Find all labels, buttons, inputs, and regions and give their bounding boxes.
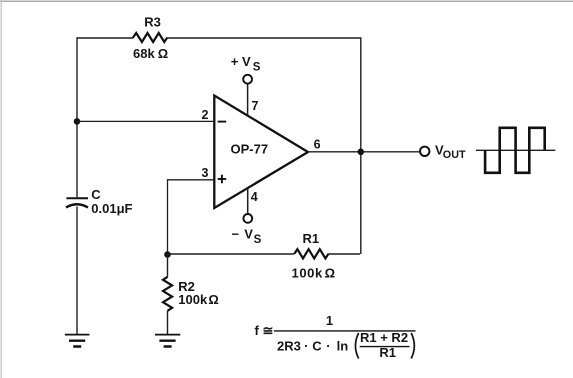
formula: big right paren [411, 333, 414, 359]
svg-text:− VS: − VS [232, 226, 262, 246]
output square wave [485, 128, 545, 173]
wire: R2 to ground [167, 311, 169, 334]
scan border top [0, 0, 573, 2]
svg-text:R1 + R2: R1 + R2 [360, 330, 408, 345]
svg-text:68kΩ: 68kΩ [133, 46, 168, 61]
output waveform zero line [476, 149, 555, 151]
svg-text:2R3·C·ln: 2R3·C·ln [277, 338, 348, 353]
svg-text:VOUT: VOUT [435, 143, 466, 161]
svg-text:R1: R1 [303, 231, 320, 246]
svg-text:100kΩ: 100kΩ [178, 292, 219, 307]
node: inverting input junction [74, 118, 81, 125]
op-amp U1 OP-77 triangle [214, 96, 308, 209]
scan border left [0, 0, 2, 378]
svg-text:3: 3 [202, 166, 209, 180]
formula f ≅ 1 / (2R3·C·ln((R1+R2)/R1)) [255, 313, 416, 360]
svg-text:6: 6 [314, 137, 321, 151]
svg-text:+ VS: + VS [231, 54, 261, 73]
wire: left vertical + top feedback left lead to R3 [77, 38, 134, 197]
svg-text:2: 2 [202, 108, 209, 122]
wire: junction down to R2 [167, 255, 169, 277]
terminal -Vs [243, 214, 252, 223]
wire: pin 7 to +Vs terminal [247, 84, 249, 116]
formula: big left paren [355, 333, 358, 359]
wire: junction to R1 [168, 253, 295, 255]
resistor R1 [294, 249, 328, 258]
svg-text:1: 1 [326, 313, 333, 328]
svg-text:4: 4 [251, 190, 258, 204]
terminal Vout [420, 147, 429, 156]
wire: output node to Vout terminal [361, 151, 420, 153]
wire: pin 6 output lead [308, 151, 361, 153]
wire: pin 4 to -Vs terminal [247, 188, 249, 213]
svg-text:OP-77: OP-77 [231, 141, 269, 156]
terminal +Vs [243, 75, 252, 84]
formula: inner fraction bar [360, 346, 410, 348]
svg-text:R3: R3 [144, 14, 161, 29]
wire: R1 to output vertical [329, 253, 361, 255]
node: output junction [358, 149, 365, 156]
formula: main fraction bar [274, 330, 416, 332]
wire: capacitor to ground [76, 207, 78, 335]
wire: pin 2 lead [77, 120, 214, 122]
capacitor C [66, 198, 88, 207]
svg-text:f ≅: f ≅ [255, 323, 274, 338]
wire: top feedback right lead from R3, corner, output vertical down through output node to R1 level [167, 38, 360, 254]
svg-text:0.01μF: 0.01μF [91, 201, 132, 216]
op-amp plus sign (non-inverting input) [218, 175, 227, 184]
resistor R2 [163, 277, 172, 311]
resistor R3 [133, 33, 167, 42]
ground (under R2) [155, 335, 180, 347]
op-amp minus sign (inverting input) [218, 121, 227, 123]
svg-text:R1: R1 [379, 345, 396, 360]
svg-text:100kΩ: 100kΩ [292, 266, 336, 281]
wire: pin 3 lead [168, 180, 214, 255]
ground (left, under C) [65, 335, 90, 347]
node: non-inverting junction [164, 251, 171, 258]
svg-text:7: 7 [252, 99, 259, 113]
